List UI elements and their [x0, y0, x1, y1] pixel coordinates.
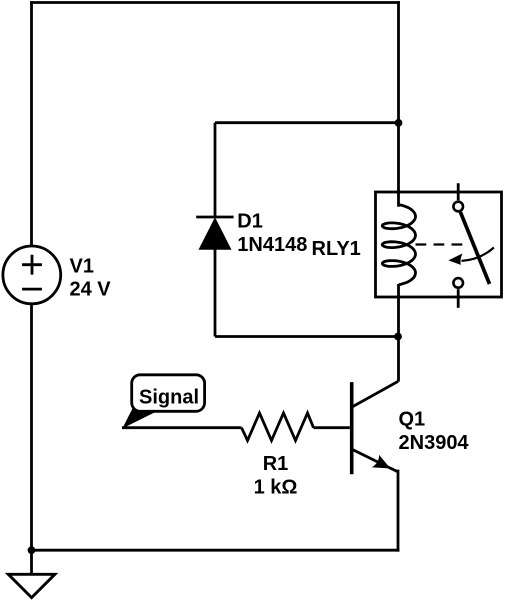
relay switch bottom stub	[457, 289, 460, 308]
svg-text:24 V: 24 V	[70, 279, 112, 301]
wire bottom rail	[32, 549, 399, 552]
transistor Q1	[352, 381, 398, 474]
wire base input	[122, 426, 242, 429]
relay switch blade	[460, 212, 489, 284]
wire D1 bottom	[215, 335, 398, 338]
wire left rail lower	[30, 304, 33, 550]
junction dot D1 anode node	[394, 333, 402, 341]
wire right rail upper	[397, 3, 400, 206]
svg-text:RLY1: RLY1	[312, 238, 361, 260]
wire right rail middle	[397, 284, 400, 382]
resistor R1	[242, 413, 314, 441]
relay actuator dashed link	[416, 243, 465, 245]
svg-text:V1: V1	[70, 256, 94, 278]
wire D1 top	[215, 121, 399, 124]
junction dot ground node	[28, 546, 36, 554]
relay RLY1 coil	[382, 205, 415, 285]
svg-text:Q1: Q1	[399, 408, 426, 430]
ground	[8, 550, 55, 597]
svg-text:1N4148: 1N4148	[237, 234, 307, 256]
svg-text:R1: R1	[263, 453, 289, 475]
relay RLY1 box	[376, 192, 502, 297]
relay switch common contact	[453, 202, 463, 212]
diode D1	[196, 217, 233, 249]
voltage source V1	[3, 246, 61, 304]
wire Q1 emitter drop	[397, 471, 400, 550]
svg-text:1 kΩ: 1 kΩ	[254, 477, 298, 499]
signal callout	[122, 375, 204, 429]
relay switch top stub	[457, 183, 460, 200]
wire resistor to base	[314, 426, 350, 429]
wire top rail	[32, 1, 399, 4]
relay switch NO contact	[453, 278, 463, 288]
svg-text:2N3904: 2N3904	[399, 432, 470, 454]
svg-text:D1: D1	[237, 210, 263, 232]
relay actuation arrow	[448, 248, 494, 265]
wire D1 cathode drop	[214, 123, 217, 217]
svg-text:Signal: Signal	[139, 387, 199, 409]
junction dot D1 cathode node	[395, 119, 403, 127]
wire left rail upper	[30, 3, 33, 246]
wire D1 anode drop	[214, 249, 217, 336]
